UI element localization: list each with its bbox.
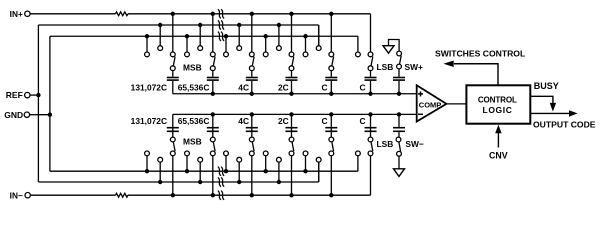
svg-text:C: C (359, 82, 365, 92)
svg-text:131,072C: 131,072C (131, 82, 167, 92)
svg-text:2C: 2C (278, 116, 289, 126)
svg-text:IN−: IN− (10, 190, 23, 200)
svg-text:SW−: SW− (405, 139, 423, 149)
svg-text:C: C (359, 116, 365, 126)
svg-text:4C: 4C (238, 82, 249, 92)
svg-text:LOGIC: LOGIC (483, 105, 513, 115)
svg-text:C: C (321, 82, 327, 92)
svg-text:C: C (321, 116, 327, 126)
svg-text:IN+: IN+ (10, 9, 23, 19)
svg-text:CNV: CNV (489, 151, 508, 161)
svg-text:LSB: LSB (377, 62, 394, 72)
svg-text:2C: 2C (278, 82, 289, 92)
svg-text:BUSY: BUSY (534, 81, 559, 91)
svg-text:SW+: SW+ (405, 62, 423, 72)
svg-text:65,536C: 65,536C (178, 82, 210, 92)
svg-text:COMP: COMP (419, 100, 442, 109)
svg-text:SWITCHES CONTROL: SWITCHES CONTROL (435, 48, 525, 58)
svg-text:MSB: MSB (183, 62, 202, 72)
svg-text:GND: GND (4, 110, 23, 120)
svg-text:OUTPUT CODE: OUTPUT CODE (533, 119, 596, 129)
svg-text:131,072C: 131,072C (131, 116, 167, 126)
svg-text:REF: REF (6, 90, 23, 100)
svg-text:4C: 4C (238, 116, 249, 126)
svg-text:CONTROL: CONTROL (478, 96, 517, 105)
svg-text:LSB: LSB (377, 139, 394, 149)
svg-text:65,536C: 65,536C (178, 116, 210, 126)
svg-text:MSB: MSB (183, 136, 202, 146)
